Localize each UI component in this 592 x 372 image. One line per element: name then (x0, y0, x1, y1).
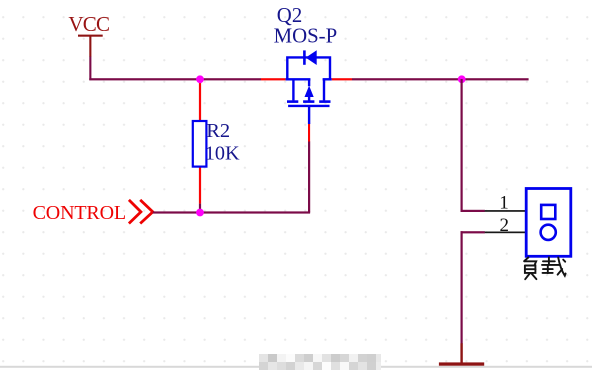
wire top rail right segment (352, 78, 529, 80)
connector pin 2 (black) (485, 232, 527, 234)
connector terminal circle pin2 (541, 225, 556, 240)
transistor Q2 pin 1 (gate, bottom, red) (308, 124, 310, 143)
wire top rail left segment (89, 78, 261, 80)
transistor Q2 pin 2 (source, left, red) (261, 78, 286, 80)
wire rail down to connector pin 1 (461, 79, 485, 212)
transistor Q2 pin 3 (drain, right, red) (332, 78, 352, 80)
resistor R2 designator label (206, 120, 230, 142)
junction dot on rail above R2 (196, 75, 204, 83)
net label CONTROL (33, 202, 126, 224)
connector pin 1 (black) (485, 210, 527, 212)
blurred watermark mosaic (259, 354, 381, 370)
connector name label (CJK "load") drawn as strokes (524, 257, 565, 279)
power VCC label (68, 12, 109, 36)
svg-text:VCC: VCC (68, 12, 109, 36)
power ground bar (439, 362, 484, 365)
resistor R2 value label 10K (205, 142, 240, 164)
wire CONTROL to junction (153, 211, 200, 213)
horizontal gray rule at page bottom (0, 366, 592, 368)
transistor Q2 MOSFET-P symbol body (286, 50, 332, 124)
wire junction to gate (199, 211, 310, 213)
connector body (load) (526, 189, 571, 257)
svg-text:R2: R2 (206, 120, 230, 142)
connector terminal square pin1 (541, 205, 555, 219)
transistor Q2 designator (277, 4, 302, 27)
wire gate vertical (308, 142, 310, 213)
port CONTROL chevron symbol (129, 200, 153, 224)
power VCC bar symbol (78, 35, 103, 57)
connector pin 1 number label (499, 192, 509, 213)
connector pin 2 number label (500, 215, 510, 236)
wire R2 bottom stub (199, 204, 201, 213)
wire VCC stem (89, 57, 91, 81)
svg-text:10K: 10K (205, 142, 240, 164)
svg-text:1: 1 (499, 192, 509, 213)
junction dot CONTROL node (196, 209, 204, 217)
transistor Q2 value MOS-P (274, 24, 338, 47)
svg-text:CONTROL: CONTROL (33, 202, 126, 224)
resistor R2 pin 2 (bottom, red) (199, 167, 201, 204)
resistor R2 pin 1 (top, red) (199, 81, 201, 121)
resistor R2 body (193, 121, 207, 167)
power ground stem (460, 343, 462, 364)
svg-text:MOS-P: MOS-P (274, 24, 338, 47)
junction dot on rail right (458, 75, 466, 83)
svg-text:2: 2 (500, 215, 510, 236)
wire connector pin 2 down to ground (461, 231, 485, 344)
